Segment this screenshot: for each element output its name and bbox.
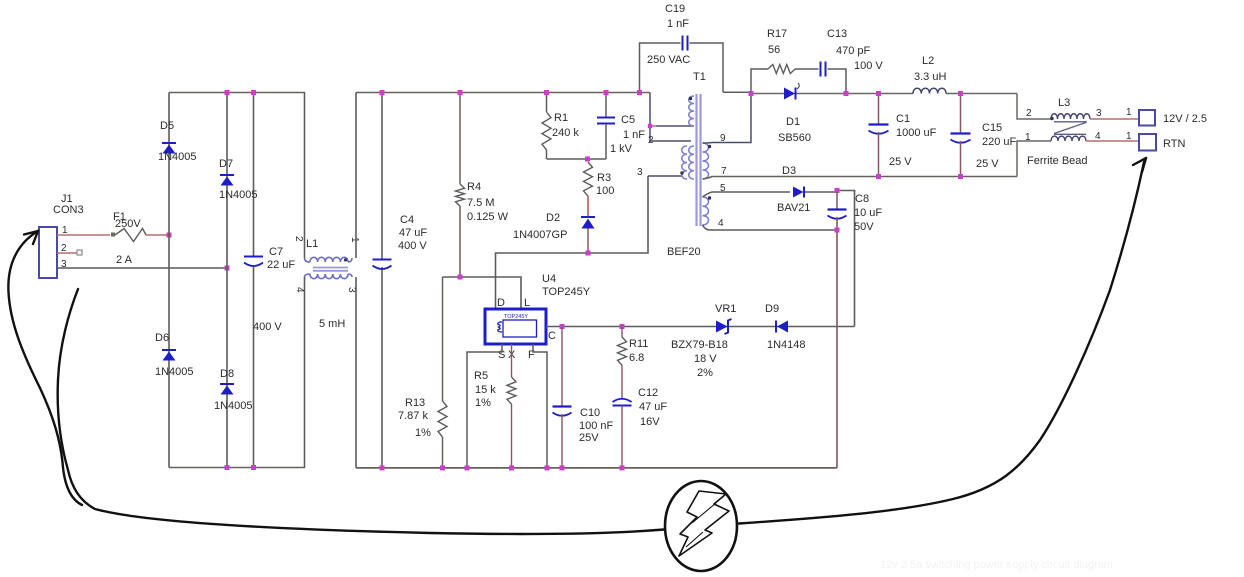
svg-text:CON3: CON3 (53, 204, 84, 216)
wire pin7 secondary return rail (703, 177, 1018, 180)
wire drain row (D pin to T1 pin3 column) (496, 176, 649, 309)
svg-text:1%: 1% (475, 397, 491, 409)
svg-text:D7: D7 (219, 158, 233, 170)
resistor R1 240k (542, 90, 579, 159)
wire primary bottom pin row (648, 124, 694, 128)
svg-text:RTN: RTN (1163, 138, 1185, 150)
svg-text:BEF20: BEF20 (667, 246, 701, 258)
svg-text:R1: R1 (554, 112, 568, 124)
svg-text:2: 2 (648, 135, 654, 146)
node R3 tap junction (585, 157, 590, 162)
svg-text:1N4005: 1N4005 (158, 151, 197, 163)
wire left-rect right column above L1 (304, 93, 306, 259)
svg-text:220 uF: 220 uF (982, 136, 1017, 148)
svg-text:C7: C7 (269, 246, 283, 258)
diode D7 1N4005 (220, 175, 234, 186)
wire J1 pin2 stub with no-connect square (57, 250, 82, 255)
svg-text:250V: 250V (115, 218, 141, 230)
svg-text:BZX79-B18: BZX79-B18 (671, 339, 728, 351)
svg-text:25 V: 25 V (889, 156, 912, 168)
transformer T1 secondary winding (703, 143, 712, 179)
svg-text:400 V: 400 V (253, 321, 282, 333)
zener VR1 BZX79-B18 (671, 303, 736, 379)
svg-text:D9: D9 (765, 303, 779, 315)
svg-text:1N4005: 1N4005 (155, 366, 194, 378)
wire bridge left column (D5/D6) (168, 93, 170, 468)
svg-text:6.8: 6.8 (629, 352, 644, 364)
svg-text:C: C (548, 330, 556, 342)
svg-text:C13: C13 (827, 28, 847, 40)
svg-text:250 VAC: 250 VAC (647, 54, 690, 66)
svg-text:4: 4 (294, 287, 305, 293)
svg-text:18 V: 18 V (694, 353, 717, 365)
connector J1 (39, 193, 84, 278)
svg-text:100 nF: 100 nF (579, 420, 614, 432)
svg-text:BAV21: BAV21 (777, 202, 810, 214)
svg-text:12V / 2.5: 12V / 2.5 (1163, 113, 1207, 125)
svg-text:0.125 W: 0.125 W (467, 211, 509, 223)
capacitor C15 220uF 25V (951, 91, 1017, 179)
resistor R3 100 (584, 162, 615, 197)
wire S pin loop (467, 344, 502, 468)
wire C19 to pin9 node (723, 91, 751, 93)
svg-text:C12: C12 (638, 387, 658, 399)
transformer T1 BEF20 core (697, 94, 701, 226)
svg-text:15 k: 15 k (475, 384, 496, 396)
svg-text:100 V: 100 V (854, 60, 883, 72)
svg-text:1N4148: 1N4148 (767, 339, 806, 351)
node pin9/C19/R17 junction (749, 91, 754, 96)
svg-text:1: 1 (1025, 132, 1031, 143)
wire pin5 row (703, 192, 791, 197)
svg-text:SB560: SB560 (778, 132, 811, 144)
hand-drawn arrow curve pointing at J1 (8, 231, 82, 505)
transformer T1 labels (637, 71, 727, 258)
op-amp U4 TOP245Y switcher IC (485, 273, 591, 361)
svg-text:D8: D8 (220, 368, 234, 380)
wire bridge top bus (169, 92, 305, 94)
capacitor C12 47uF 16V (613, 387, 668, 470)
diode D8 1N4005 (220, 384, 234, 395)
svg-text:C5: C5 (621, 114, 635, 126)
wire mid bottom rail (356, 467, 837, 469)
wire T1 pin9 row and vertical (703, 94, 752, 144)
wire R1/C5 loop bottom (547, 158, 607, 160)
svg-text:1: 1 (1126, 107, 1132, 118)
lightning bolt (679, 491, 729, 556)
node C13 junction (844, 91, 849, 96)
transformer T1 primary winding (689, 96, 694, 126)
wire rail corner to L3 top row (1017, 94, 1051, 120)
fuse F1 (111, 211, 169, 242)
svg-text:16V: 16V (640, 416, 660, 428)
svg-text:3: 3 (637, 167, 643, 178)
svg-text:L3: L3 (1058, 97, 1070, 109)
node pin3-to-bridge junction (225, 266, 230, 271)
diode D2 1N4007GP (513, 196, 595, 253)
resistor R4 7.5M (456, 90, 509, 277)
wire C7 column (253, 93, 255, 468)
wire J1 pin1 to fuse (57, 234, 110, 236)
svg-text:C10: C10 (580, 407, 600, 419)
diode D6 1N4005 (162, 350, 176, 361)
wire T1 pin3 row (648, 175, 682, 177)
diode D9 1N4148 (765, 303, 806, 351)
node bus junctions left (225, 90, 257, 470)
wire L3 to output boxes (1086, 119, 1139, 141)
svg-text:D: D (497, 297, 505, 309)
diode D5 1N4005 (162, 143, 176, 154)
wire L-pin row (R13 top to L pin) (443, 277, 522, 309)
svg-text:22 uF: 22 uF (267, 259, 295, 271)
wire C control row (546, 326, 855, 328)
svg-text:D1: D1 (786, 116, 800, 128)
capacitor C19 1nF 250VAC (637, 3, 723, 95)
svg-text:1: 1 (349, 237, 360, 243)
inductor L2 3.3uH (913, 55, 946, 94)
svg-text:1000 uF: 1000 uF (896, 127, 937, 139)
capacitor C7 22uF 400V (244, 246, 295, 333)
svg-text:C1: C1 (896, 113, 910, 125)
svg-text:D5: D5 (160, 120, 174, 132)
capacitor C5 1nF 1kV (597, 90, 645, 159)
resistor R5 15k 1% (X pin) (474, 344, 516, 470)
wire left-rect right column below L1 (304, 277, 306, 468)
wire mid top bus (356, 92, 650, 94)
svg-text:C8: C8 (855, 193, 869, 205)
svg-text:2%: 2% (697, 367, 713, 379)
svg-text:25 V: 25 V (976, 158, 999, 170)
wire D3 node to feedback corner (837, 191, 855, 193)
lightning hazard circle (665, 481, 737, 571)
resistor R13 7.87k 1% (398, 277, 447, 470)
svg-text:56: 56 (768, 44, 780, 56)
svg-text:100: 100 (596, 185, 614, 197)
svg-text:R5: R5 (474, 370, 488, 382)
transformer T1 bias winding (703, 196, 712, 225)
node output 12V terminal (1139, 110, 1207, 126)
svg-text:C4: C4 (400, 214, 414, 226)
svg-text:10 uF: 10 uF (854, 207, 882, 219)
svg-text:C15: C15 (982, 122, 1002, 134)
resistor R17 56 (751, 28, 795, 94)
wire bridge bottom rail (169, 467, 305, 469)
wire pin4 row (703, 225, 838, 230)
svg-text:1N4005: 1N4005 (214, 400, 253, 412)
inductor L3 ferrite bead (1025, 97, 1132, 167)
node fuse-to-bridge junction (167, 233, 172, 238)
svg-text:L: L (524, 297, 530, 309)
transformer T1 left lower winding (bifilar) (680, 146, 694, 179)
node R11 tap (620, 324, 625, 329)
svg-text:50V: 50V (854, 221, 874, 233)
svg-text:25V: 25V (579, 432, 599, 444)
svg-text:7: 7 (721, 166, 727, 177)
svg-text:12v 2 5a switching power suppl: 12v 2 5a switching power supply circuit … (880, 559, 1113, 571)
svg-text:U4: U4 (542, 273, 556, 285)
svg-text:D3: D3 (782, 165, 796, 177)
svg-text:7.5 M: 7.5 M (467, 197, 495, 209)
svg-text:1N4007GP: 1N4007GP (513, 229, 567, 241)
svg-text:47 uF: 47 uF (399, 227, 427, 239)
svg-text:R13: R13 (405, 397, 425, 409)
wire RTN rail corner (1017, 141, 1051, 177)
inductor L1 5mH (293, 236, 360, 330)
wire J1 pin3 "2 A" line to bridge (57, 254, 227, 268)
svg-text:R3: R3 (597, 172, 611, 184)
wire +12V top rail (751, 93, 1017, 95)
svg-text:D2: D2 (546, 212, 560, 224)
hand-drawn curve from below J1 (58, 289, 664, 534)
svg-text:1N4005: 1N4005 (219, 189, 258, 201)
capacitor C1 1000uF 25V (869, 91, 937, 179)
svg-text:470 pF: 470 pF (836, 45, 871, 57)
svg-text:2: 2 (1026, 108, 1032, 119)
svg-text:L2: L2 (922, 55, 934, 67)
wire bus corner into T1 primary (650, 93, 691, 142)
svg-text:D6: D6 (155, 332, 169, 344)
svg-text:4: 4 (718, 218, 724, 229)
capacitor C4 47uF 400V (373, 90, 428, 470)
svg-text:400 V: 400 V (398, 240, 427, 252)
svg-text:1%: 1% (415, 427, 431, 439)
svg-text:T1: T1 (693, 71, 706, 83)
svg-text:VR1: VR1 (715, 303, 736, 315)
hand-drawn curve from lightning circle to RTN arrow (739, 158, 1146, 524)
svg-text:R17: R17 (767, 28, 787, 40)
capacitor C10 100nF 25V (553, 327, 614, 471)
svg-text:1 nF: 1 nF (667, 18, 689, 30)
svg-text:R11: R11 (629, 338, 648, 350)
svg-text:F: F (528, 349, 535, 361)
svg-text:TOP245Y: TOP245Y (504, 314, 528, 320)
wire bridge mid column (D7/D8) (226, 93, 228, 468)
resistor R11 6.8 (618, 327, 649, 400)
svg-text:47 uF: 47 uF (639, 401, 667, 413)
svg-text:L1: L1 (306, 238, 318, 250)
capacitor C13 470pF 100V (795, 28, 883, 94)
node D2 to drain row (586, 251, 591, 256)
wire mid left column (above/below L1) (355, 93, 357, 468)
svg-text:2 A: 2 A (116, 254, 133, 266)
diode D3 BAV21 (777, 165, 837, 214)
diode D1 SB560 (778, 83, 811, 144)
svg-text:3: 3 (1096, 108, 1102, 119)
svg-text:R4: R4 (467, 181, 481, 193)
svg-text:1 nF: 1 nF (623, 129, 645, 141)
svg-text:5 mH: 5 mH (319, 318, 345, 330)
node output RTN terminal (1139, 134, 1185, 151)
svg-text:240 k: 240 k (552, 127, 579, 139)
svg-text:1 kV: 1 kV (610, 143, 633, 155)
svg-text:Ferrite Bead: Ferrite Bead (1027, 155, 1088, 167)
svg-text:C19: C19 (665, 3, 685, 15)
svg-text:3.3 uH: 3.3 uH (914, 71, 946, 83)
node R4 bottom junction (458, 275, 463, 280)
wire feedback right vertical to D3 node (854, 190, 856, 327)
capacitor C8 10uF 50V (828, 188, 883, 468)
svg-text:2: 2 (293, 236, 304, 242)
svg-text:TOP245Y: TOP245Y (542, 286, 591, 298)
node C10 tap (560, 324, 565, 329)
wire F pin loop (533, 344, 547, 468)
svg-text:7.87 k: 7.87 k (398, 410, 428, 422)
